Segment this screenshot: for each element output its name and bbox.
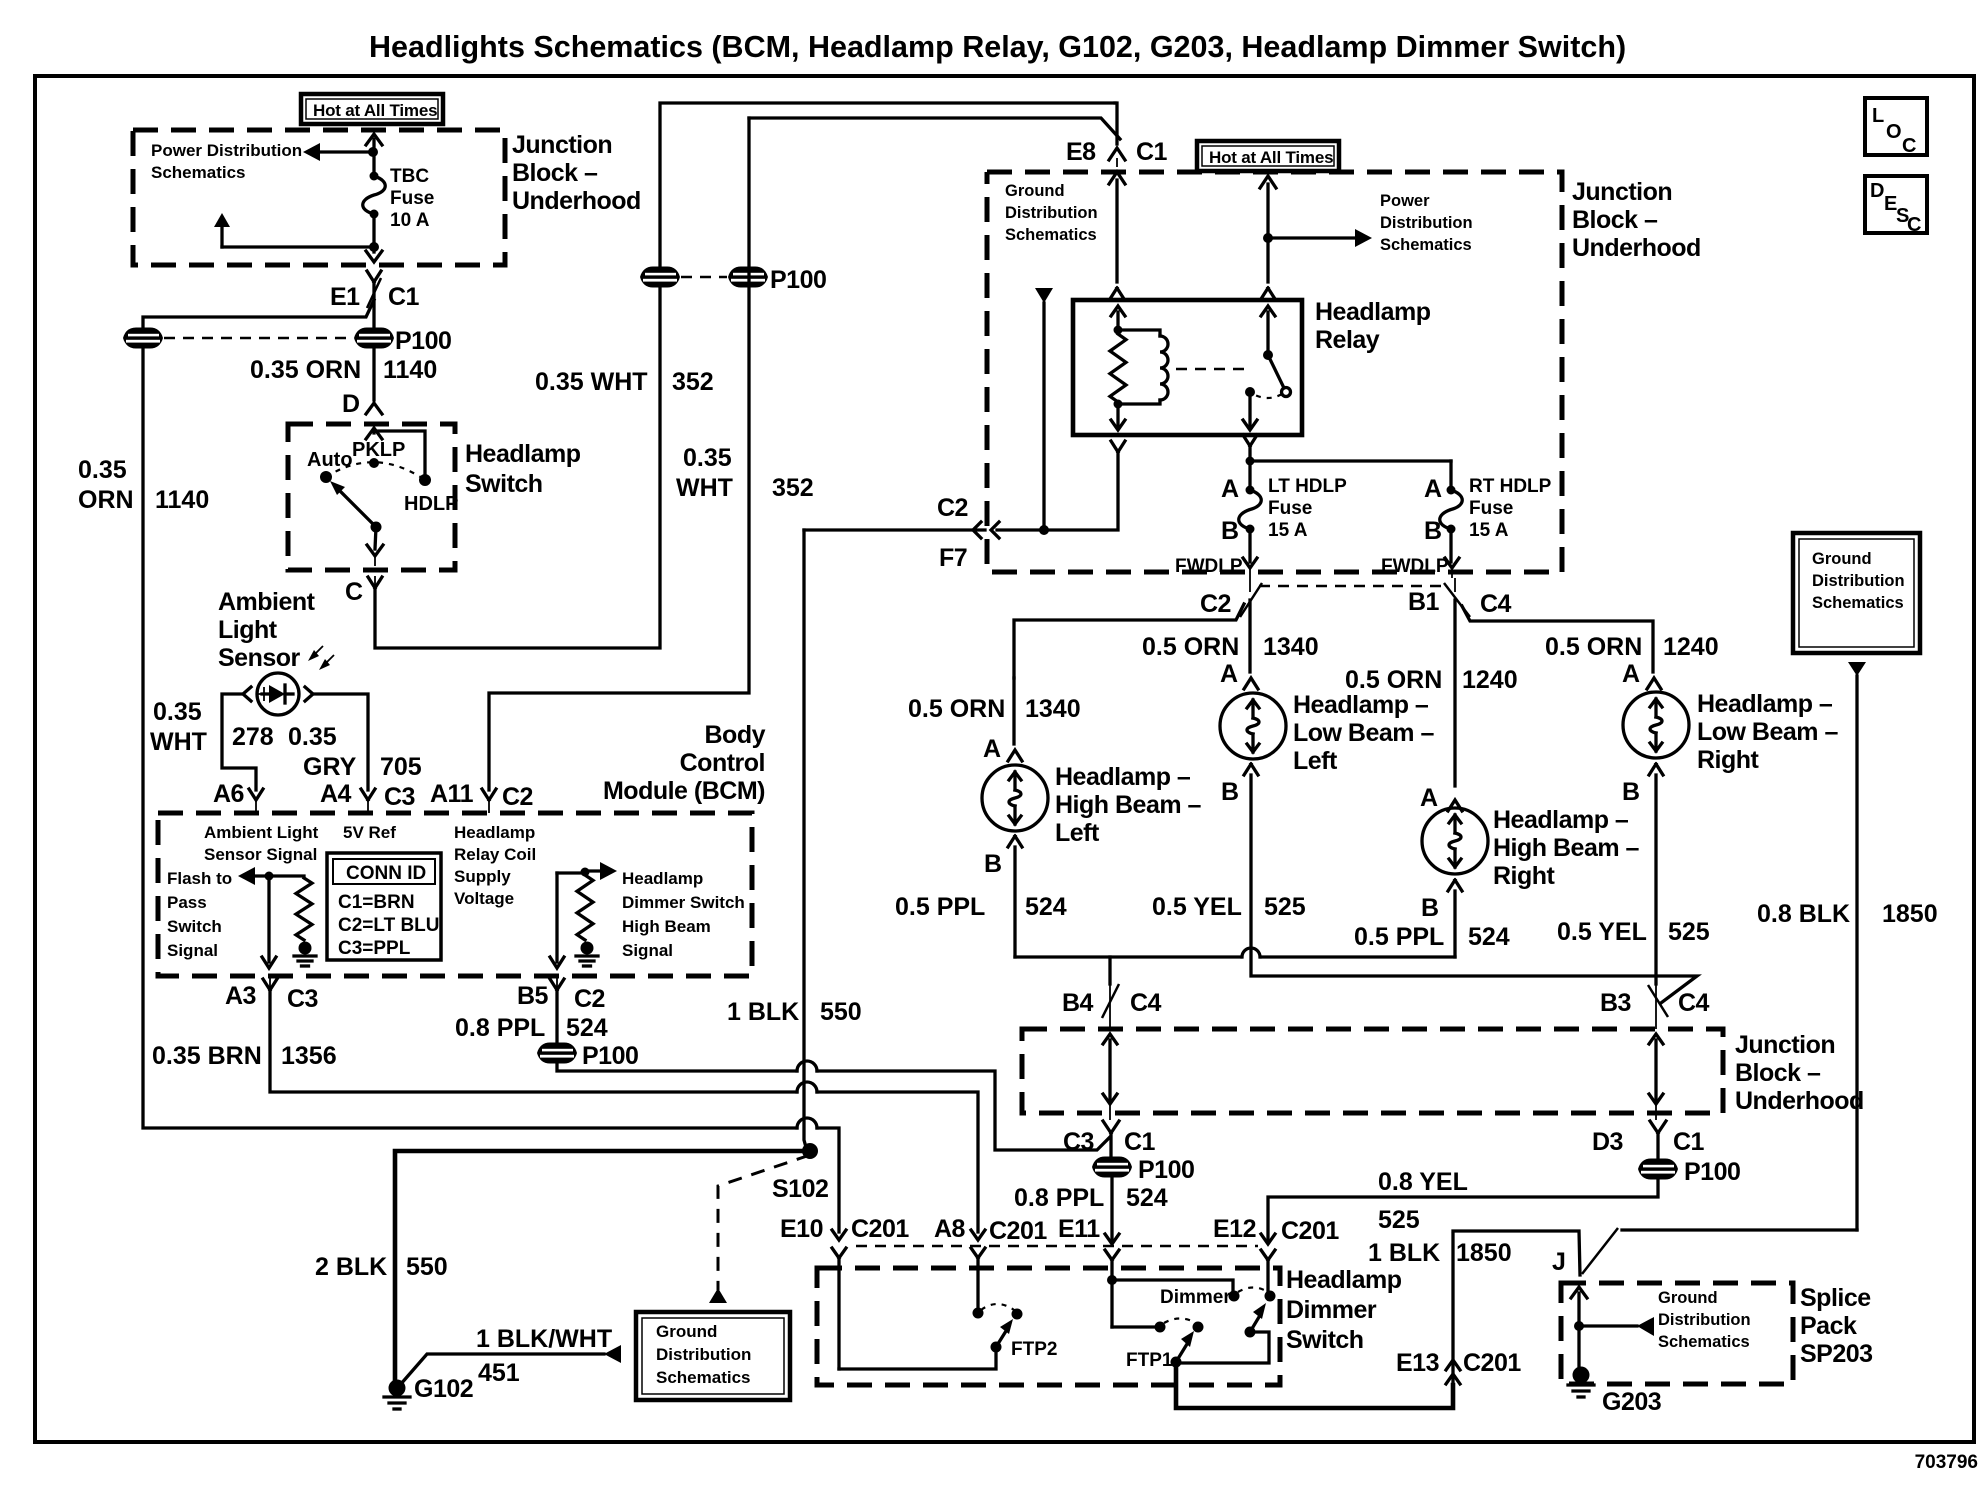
- svg-text:Junction: Junction: [512, 131, 612, 159]
- svg-text:F7: F7: [939, 544, 967, 572]
- label: Power Distribution Schematics (top-left): [151, 141, 302, 182]
- svg-text:Ground: Ground: [1005, 182, 1065, 200]
- svg-text:Headlamp –: Headlamp –: [1055, 763, 1191, 791]
- label: Headlamp - High Beam - Right: [1493, 806, 1640, 890]
- pin A high beam right: [1420, 784, 1462, 812]
- contact FTP2: [1011, 1309, 1057, 1361]
- svg-text:A: A: [1221, 475, 1239, 503]
- svg-text:Sensor Signal: Sensor Signal: [204, 845, 317, 864]
- svg-text:TBC: TBC: [390, 166, 429, 187]
- svg-text:15 A: 15 A: [1469, 520, 1509, 541]
- label: 0.8 PPL 524 (to E11): [1014, 1184, 1168, 1212]
- connector D3/C1: [1592, 1121, 1705, 1156]
- label: 0.35 ORN 1140 (left wire): [78, 456, 209, 514]
- switch blade FTP2: [991, 1319, 1014, 1353]
- svg-text:E1: E1: [330, 283, 360, 311]
- wire: E8 into junction block: [1109, 103, 1125, 282]
- svg-text:0.8 PPL: 0.8 PPL: [1014, 1184, 1104, 1212]
- label: 0.5 YEL 525 (left): [1152, 893, 1306, 921]
- svg-text:C201: C201: [989, 1217, 1047, 1245]
- svg-text:A: A: [1622, 660, 1640, 688]
- svg-text:Junction: Junction: [1735, 1031, 1835, 1059]
- label: Ambient Light Sensor Signal: [204, 823, 319, 864]
- svg-text:Ground: Ground: [1658, 1289, 1718, 1307]
- label: 0.5 ORN 1340 (high beam left): [908, 695, 1081, 723]
- pin A low beam right: [1622, 660, 1661, 689]
- svg-text:J: J: [1552, 1248, 1565, 1276]
- svg-text:Distribution: Distribution: [656, 1345, 751, 1364]
- wire: fuse feed from Hot at All Times: [366, 134, 382, 176]
- contact Dimmer: [1229, 1291, 1240, 1302]
- svg-text:15 A: 15 A: [1268, 520, 1308, 541]
- svg-text:Ambient: Ambient: [218, 588, 316, 616]
- svg-text:C1: C1: [388, 283, 420, 311]
- svg-text:RT HDLP: RT HDLP: [1469, 476, 1552, 497]
- svg-text:1850: 1850: [1882, 900, 1938, 928]
- svg-text:LT HDLP: LT HDLP: [1268, 476, 1347, 497]
- svg-text:Distribution: Distribution: [1005, 204, 1098, 222]
- contact Auto: [307, 449, 353, 483]
- svg-text:SP203: SP203: [1800, 1340, 1873, 1368]
- svg-text:ORN: ORN: [78, 486, 134, 514]
- pin E12/C201: [1213, 1215, 1339, 1260]
- label: Headlamp Switch: [465, 440, 581, 498]
- svg-text:0.8 BLK: 0.8 BLK: [1757, 900, 1850, 928]
- connector C2 (fuse block to low beam left): [1200, 578, 1262, 618]
- label: Headlamp - High Beam - Left: [1055, 763, 1202, 847]
- connector B3/C4: [1600, 984, 1710, 1029]
- svg-text:C2: C2: [502, 783, 533, 811]
- label: Headlamp Dimmer Switch: [1286, 1266, 1402, 1354]
- svg-text:524: 524: [1468, 923, 1510, 951]
- relay coil: [1114, 330, 1169, 409]
- fuse: LT HDLP Fuse 15 A: [1221, 461, 1347, 545]
- label: Headlamp Dimmer Switch High Beam Signal: [622, 869, 745, 960]
- junction block underhood (right) dashed box: [987, 172, 1562, 572]
- wire: E11 to dimmer contact: [1112, 1280, 1233, 1292]
- wire: 0.35 ORN 1140 to headlamp switch D: [372, 346, 375, 400]
- svg-text:Block –: Block –: [1735, 1059, 1821, 1087]
- wire: high beam right B drop: [1453, 891, 1456, 957]
- svg-text:P100: P100: [770, 266, 826, 294]
- svg-text:550: 550: [820, 998, 862, 1026]
- headlamp switch wiper blade: [330, 481, 382, 533]
- svg-text:Control: Control: [680, 749, 765, 777]
- CONN ID table: [327, 853, 441, 960]
- svg-text:1 BLK: 1 BLK: [1368, 1239, 1440, 1267]
- wire: 1 BLK 1850 to splice pack: [1453, 1231, 1580, 1275]
- connector P100 (top, left half): [123, 328, 163, 349]
- svg-text:1240: 1240: [1462, 666, 1518, 694]
- svg-text:B: B: [984, 850, 1002, 878]
- svg-text:0.5 PPL: 0.5 PPL: [1354, 923, 1444, 951]
- connector E8/C1: [1066, 138, 1168, 166]
- relay switch common pin: [1261, 288, 1275, 360]
- wire: wiper to pin C: [367, 527, 383, 566]
- BCM dimmer high-beam node with arrow: [557, 862, 617, 880]
- connector B1/C4: [1408, 578, 1512, 618]
- pin A11/C2: [430, 780, 533, 813]
- DESC box: [1865, 176, 1927, 236]
- splice S102: [772, 1143, 828, 1203]
- svg-text:G203: G203: [1602, 1388, 1661, 1416]
- svg-text:Ground: Ground: [656, 1322, 717, 1341]
- contact A8 flash-to-pass: [973, 1308, 984, 1319]
- svg-text:Headlamp –: Headlamp –: [1697, 690, 1833, 718]
- resistor: BCM high-beam input: [577, 875, 593, 940]
- svg-text:High Beam: High Beam: [622, 917, 711, 936]
- label: 1 BLK 550: [727, 998, 862, 1026]
- wire: B1 to lamps split (right): [1455, 600, 1653, 786]
- svg-text:B: B: [1221, 778, 1239, 806]
- svg-text:C201: C201: [1281, 1217, 1339, 1245]
- relay resistor: [1110, 334, 1126, 402]
- svg-text:0.5 YEL: 0.5 YEL: [1152, 893, 1242, 921]
- contact PKLP: [352, 439, 405, 468]
- svg-text:C201: C201: [851, 1215, 909, 1243]
- svg-text:Switch: Switch: [167, 917, 222, 936]
- svg-text:B: B: [1622, 778, 1640, 806]
- label: 0.5 ORN 1340 (low beam left): [1142, 633, 1319, 661]
- svg-text:CONN ID: CONN ID: [346, 863, 426, 884]
- svg-text:A4: A4: [320, 780, 352, 808]
- ground: BCM internal (left): [294, 942, 316, 967]
- label: 0.8 PPL 524 (BCM): [455, 1014, 608, 1042]
- label: Headlamp Relay: [1315, 298, 1431, 354]
- svg-text:525: 525: [1378, 1206, 1420, 1234]
- label: Junction Block - Underhood (bottom): [1735, 1031, 1864, 1115]
- svg-text:1340: 1340: [1025, 695, 1081, 723]
- svg-text:Low Beam –: Low Beam –: [1697, 718, 1838, 746]
- label: 0.5 YEL 525 (right): [1557, 918, 1710, 946]
- pin C of headlamp switch: [345, 576, 382, 606]
- relay switch blade: [1268, 355, 1291, 397]
- wire: ground riser in junction block: [1035, 288, 1053, 535]
- svg-text:Schematics: Schematics: [1005, 226, 1097, 244]
- svg-text:Supply: Supply: [454, 867, 511, 886]
- label: 1 BLK 1850: [1368, 1239, 1512, 1267]
- wire: 0.5 YEL 525 low beam left: [1251, 775, 1697, 1003]
- relay coil to switch dashed link: [1176, 368, 1252, 370]
- svg-text:Schematics: Schematics: [151, 163, 246, 182]
- wire: headlamp switch feed to HDLP contact: [366, 428, 425, 476]
- dashed wire: S102 to ground distribution box: [709, 1155, 810, 1303]
- svg-text:703796: 703796: [1915, 1452, 1978, 1473]
- label: Hot at All Times (right): [1197, 141, 1339, 171]
- pin A8/C201: [934, 1215, 1047, 1258]
- svg-text:0.5 ORN: 0.5 ORN: [1142, 633, 1239, 661]
- wire: sensor right to A4: [313, 694, 368, 790]
- svg-text:C2: C2: [937, 494, 968, 522]
- svg-text:B: B: [1421, 894, 1439, 922]
- wire: E1 down to P100 and branch to left: [143, 282, 374, 330]
- svg-text:352: 352: [772, 474, 814, 502]
- svg-text:Distribution: Distribution: [1658, 1311, 1751, 1329]
- relay: Headlamp Relay box: [1073, 300, 1302, 435]
- svg-text:A: A: [983, 735, 1001, 763]
- contact FTP1 upper: [1193, 1322, 1204, 1333]
- label: Splice Pack SP203: [1800, 1284, 1873, 1368]
- connector P100 (riser pair): [640, 266, 826, 294]
- svg-text:1 BLK: 1 BLK: [727, 998, 799, 1026]
- svg-text:FWDLP: FWDLP: [1175, 556, 1243, 577]
- svg-text:1140: 1140: [383, 356, 437, 384]
- svg-text:WHT: WHT: [676, 474, 733, 502]
- connector P100 (C3 wire): [1092, 1133, 1194, 1184]
- svg-text:E13: E13: [1396, 1349, 1439, 1377]
- svg-text:Headlamp –: Headlamp –: [1493, 806, 1629, 834]
- svg-text:P100: P100: [395, 327, 451, 355]
- pin B high beam left: [984, 836, 1022, 878]
- svg-text:Dimmer Switch: Dimmer Switch: [622, 893, 745, 912]
- svg-text:Signal: Signal: [622, 941, 673, 960]
- svg-text:0.5 ORN: 0.5 ORN: [908, 695, 1005, 723]
- svg-text:Pack: Pack: [1800, 1312, 1857, 1340]
- svg-text:C2=LT BLU: C2=LT BLU: [338, 915, 440, 936]
- svg-text:705: 705: [380, 753, 422, 781]
- svg-text:Underhood: Underhood: [1572, 234, 1701, 262]
- svg-text:Fuse: Fuse: [1469, 498, 1513, 519]
- pin B low beam left: [1221, 764, 1258, 806]
- svg-text:524: 524: [566, 1014, 608, 1042]
- wire: A8 into dimmer switch: [976, 1258, 979, 1307]
- pin A4/C3: [320, 780, 415, 813]
- wire: exit to E1 with arrow: [366, 247, 382, 262]
- pin A low beam left: [1220, 660, 1258, 689]
- svg-text:C1: C1: [1673, 1128, 1705, 1156]
- svg-text:A: A: [1420, 784, 1438, 812]
- svg-text:D: D: [342, 390, 360, 418]
- body control module dashed box: [158, 813, 752, 976]
- svg-text:2 BLK: 2 BLK: [315, 1253, 387, 1281]
- wire: B3 through junction block: [1649, 1034, 1663, 1120]
- svg-text:Ground: Ground: [1812, 550, 1872, 568]
- wire: 0.5 YEL 525 low beam right to B3: [1654, 775, 1657, 984]
- wire: TBC fuse output: [369, 214, 379, 252]
- svg-text:Low Beam –: Low Beam –: [1293, 719, 1434, 747]
- label: Headlamp Relay Coil Supply Voltage: [454, 823, 536, 908]
- relay switch output contact: [1243, 387, 1257, 430]
- ground G203: [1568, 1367, 1661, 1417]
- lamp: Headlamp - Low Beam - Left: [1220, 693, 1286, 759]
- svg-text:0.8 PPL: 0.8 PPL: [455, 1014, 545, 1042]
- svg-text:Left: Left: [1293, 747, 1338, 775]
- contact HDLP: [404, 474, 458, 515]
- svg-text:10 A: 10 A: [390, 210, 430, 231]
- svg-text:C: C: [345, 578, 363, 606]
- wire: C2 to lamps split: [1014, 600, 1250, 678]
- label: 0.5 PPL 524 (right): [1354, 923, 1510, 951]
- wire: FTP1 to E13: [1176, 1234, 1453, 1408]
- svg-text:P100: P100: [582, 1042, 638, 1070]
- splice junction in SP203: [1574, 1317, 1654, 1336]
- wire: 2 BLK 550 S102 to G102: [395, 1151, 810, 1385]
- label: 0.35 WHT 278: [150, 698, 274, 756]
- svg-text:FWDLP: FWDLP: [1381, 556, 1449, 577]
- wire: 0.35 BRN 1356 A3 to A8: [270, 990, 978, 1232]
- svg-text:D3: D3: [1592, 1128, 1623, 1156]
- svg-text:Block –: Block –: [1572, 206, 1658, 234]
- relay switch closed-position arc: [1253, 394, 1282, 398]
- svg-text:Distribution: Distribution: [1380, 214, 1473, 232]
- svg-text:Light: Light: [218, 616, 278, 644]
- connector line C201 (dashed): [856, 1245, 1258, 1247]
- pin E11/C201: [1058, 1215, 1119, 1260]
- ground distribution schematics box (bottom-left): [636, 1312, 790, 1400]
- label: Junction Block - Underhood (top-left): [512, 131, 641, 215]
- label: 0.5 ORN 1240 (high beam right): [1345, 666, 1518, 694]
- svg-text:Dimmer: Dimmer: [1286, 1296, 1377, 1324]
- wire: C2/F7 to 1 BLK 550 drop: [804, 528, 985, 531]
- svg-text:C1: C1: [1136, 138, 1168, 166]
- wire: 0.8 BLK 1850 ground drop: [1622, 662, 1866, 1230]
- svg-text:0.5 PPL: 0.5 PPL: [895, 893, 985, 921]
- pin E10/C201: [780, 1215, 909, 1258]
- svg-text:Headlamp: Headlamp: [1286, 1266, 1402, 1294]
- svg-text:C4: C4: [1678, 989, 1710, 1017]
- svg-text:352: 352: [672, 368, 714, 396]
- pin B high beam right: [1421, 880, 1462, 922]
- svg-text:Relay: Relay: [1315, 326, 1380, 354]
- svg-text:0.35 ORN: 0.35 ORN: [250, 356, 361, 384]
- svg-text:Underhood: Underhood: [512, 187, 641, 215]
- svg-text:B4: B4: [1062, 989, 1094, 1017]
- svg-text:GRY: GRY: [303, 753, 357, 781]
- svg-text:Dimmer: Dimmer: [1160, 1287, 1231, 1308]
- pin E13/C201: [1396, 1349, 1521, 1384]
- svg-text:524: 524: [1126, 1184, 1168, 1212]
- svg-text:Right: Right: [1493, 862, 1556, 890]
- label: Headlamp - Low Beam - Left: [1293, 691, 1434, 775]
- headlamp dimmer switch dashed box: [817, 1268, 1280, 1385]
- svg-text:O: O: [1886, 121, 1902, 143]
- headlamp switch dashed box: [288, 424, 455, 570]
- label: 0.5 ORN 1240 (low beam right): [1545, 633, 1719, 661]
- svg-text:1850: 1850: [1456, 1239, 1512, 1267]
- svg-text:550: 550: [406, 1253, 448, 1281]
- svg-text:0.8 YEL: 0.8 YEL: [1378, 1168, 1468, 1196]
- connector C2/F7 chevrons: [937, 494, 999, 572]
- svg-text:Body: Body: [705, 721, 766, 749]
- label: 0.35 WHT 352 (riser): [535, 368, 714, 396]
- svg-text:E8: E8: [1066, 138, 1096, 166]
- svg-text:C: C: [1902, 135, 1916, 157]
- svg-text:0.35: 0.35: [78, 456, 127, 484]
- wire: 0.8 YEL 525 D3 to E12: [1268, 1178, 1658, 1240]
- svg-text:P100: P100: [1138, 1156, 1194, 1184]
- lamp: Headlamp - Low Beam - Right: [1623, 692, 1689, 758]
- ambient light sensor (photodiode): [243, 646, 334, 715]
- svg-text:Ambient Light: Ambient Light: [204, 823, 319, 842]
- resistor: BCM ambient pull-up: [296, 878, 312, 940]
- arrow to power distribution (right): [1268, 229, 1372, 247]
- svg-text:Headlamp –: Headlamp –: [1293, 691, 1429, 719]
- svg-text:Relay Coil: Relay Coil: [454, 845, 536, 864]
- pin A3/C3: [225, 976, 318, 1013]
- wire: 0.5 PPL 524 high beam left to B4: [1015, 847, 1455, 957]
- svg-text:C2: C2: [1200, 590, 1231, 618]
- LOC box: [1865, 98, 1927, 157]
- svg-text:Voltage: Voltage: [454, 889, 514, 908]
- svg-text:0.35: 0.35: [153, 698, 202, 726]
- svg-text:Hot at All Times: Hot at All Times: [313, 101, 437, 120]
- BCM flash-to-pass node with arrow: [238, 867, 304, 885]
- svg-text:Schematics: Schematics: [1812, 594, 1904, 612]
- ground distribution schematics box (right): [1793, 533, 1920, 653]
- svg-text:B: B: [1424, 517, 1442, 545]
- svg-text:C4: C4: [1480, 590, 1512, 618]
- wire: hot feed into relay: [1260, 176, 1276, 282]
- contact FTP1 throw: [1155, 1322, 1166, 1333]
- svg-text:A3: A3: [225, 982, 256, 1010]
- svg-text:PKLP: PKLP: [352, 439, 405, 461]
- svg-text:0.5 ORN: 0.5 ORN: [1345, 666, 1442, 694]
- svg-text:P100: P100: [1684, 1158, 1740, 1186]
- wire: 0.8 PPL 524 to E11: [1110, 1176, 1113, 1240]
- svg-text:Signal: Signal: [167, 941, 218, 960]
- svg-text:1340: 1340: [1263, 633, 1319, 661]
- lamp: Headlamp - High Beam - Left: [982, 765, 1048, 831]
- label: Ground Distribution Schematics (splice pack): [1658, 1289, 1751, 1351]
- wire: sensor left to A6: [222, 694, 256, 790]
- label: Power Distribution Schematics (right): [1380, 192, 1473, 254]
- pin A high beam left: [983, 678, 1022, 763]
- label: Body Control Module (BCM): [603, 721, 766, 805]
- svg-text:Underhood: Underhood: [1735, 1087, 1864, 1115]
- connector P100 (B5 wire): [537, 990, 638, 1070]
- svg-text:A: A: [1424, 475, 1442, 503]
- label: 2 BLK 550: [315, 1253, 448, 1281]
- svg-text:C3=PPL: C3=PPL: [338, 938, 411, 959]
- svg-text:A8: A8: [934, 1215, 966, 1243]
- svg-text:0.5 YEL: 0.5 YEL: [1557, 918, 1647, 946]
- svg-text:Headlamp: Headlamp: [1315, 298, 1431, 326]
- svg-text:0.35 WHT: 0.35 WHT: [535, 368, 648, 396]
- svg-text:L: L: [1872, 105, 1884, 127]
- relay coil output to C2/F7: [997, 404, 1125, 530]
- svg-text:High Beam –: High Beam –: [1493, 834, 1640, 862]
- svg-text:C3: C3: [287, 985, 318, 1013]
- relay coil input pin: [1110, 288, 1125, 335]
- svg-text:High Beam –: High Beam –: [1055, 791, 1202, 819]
- label: 0.35 WHT 352 (stacked): [676, 444, 814, 502]
- wire: 352 second riser top link: [749, 118, 1120, 139]
- wire: headlamp switch C to relay coil feed (352 riser): [375, 103, 1115, 648]
- svg-text:C4: C4: [1130, 989, 1162, 1017]
- svg-text:0.35: 0.35: [683, 444, 732, 472]
- svg-text:S102: S102: [772, 1175, 828, 1203]
- svg-text:FTP2: FTP2: [1011, 1339, 1057, 1360]
- svg-text:E11: E11: [1058, 1215, 1100, 1243]
- svg-text:Junction: Junction: [1572, 178, 1672, 206]
- label: Headlamp - Low Beam - Right: [1697, 690, 1838, 774]
- svg-text:C2: C2: [574, 985, 605, 1013]
- label: 0.35 BRN 1356: [152, 1042, 337, 1070]
- svg-text:Sensor: Sensor: [218, 644, 301, 672]
- ground: BCM internal (right): [576, 942, 598, 967]
- connector P100 (top, right half): [354, 327, 451, 355]
- thin dashed connector line C4: [1259, 585, 1442, 587]
- svg-text:Schematics: Schematics: [1380, 236, 1472, 254]
- wire: dimmer blade to FTP1: [1178, 1332, 1269, 1363]
- junction block underhood (bottom) dashed box: [1022, 1029, 1723, 1113]
- svg-text:Module (BCM): Module (BCM): [603, 777, 765, 805]
- wire: RT fuse output FWDLP: [1445, 529, 1459, 578]
- svg-text:278: 278: [232, 723, 274, 751]
- switch blade FTP1: [1126, 1331, 1194, 1371]
- label: Ground Distribution Schematics (in junction block): [1005, 182, 1098, 244]
- wire: E10 into dimmer switch to FTP2 wiper: [839, 1258, 996, 1369]
